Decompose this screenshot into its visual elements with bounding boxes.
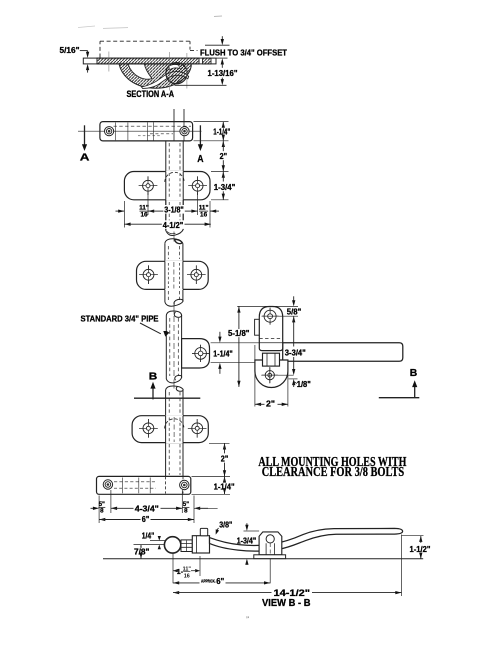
dimension 1/8 [289,379,311,389]
reference line ball center [134,544,165,546]
svg-text:1/4": 1/4" [142,532,155,541]
svg-text:16: 16 [140,212,148,219]
pipe segment 3 top cap [166,311,181,317]
latch finger fold (white band) [142,72,189,89]
dimension 3-1/8 [148,205,198,215]
svg-text:2": 2" [220,152,228,161]
extension lines 2 inch side [255,345,288,407]
label VIEW B - B [262,598,311,609]
clevis bolt head [200,528,207,535]
side plate hole [261,367,293,383]
dimension 5/8 side [287,296,302,322]
dimension 1-1/4 top [213,122,230,141]
dimension 2 right [220,141,228,172]
svg-text:3-1/8": 3-1/8" [164,206,184,215]
side pivot bracket [259,307,282,351]
svg-text:VIEW B - B: VIEW B - B [262,598,311,609]
section line B left [134,397,200,399]
pipe segment 4 [166,389,183,416]
pivot arm (front view) [182,339,210,368]
pipe segment 1 [166,141,183,231]
svg-text:4-1/2": 4-1/2" [163,221,184,230]
dimension 1-3/4 [214,172,236,200]
svg-text:1-1/4": 1-1/4" [213,349,233,358]
arm hole [192,345,209,362]
side bottom plate [255,360,288,387]
side nut [263,353,280,366]
svg-text:B: B [410,367,418,379]
pivot base flange [254,555,286,559]
svg-text:8: 8 [184,508,188,515]
section arrow B left [150,382,155,400]
top bracket bolt left [105,127,114,136]
center line gap 3 [173,380,175,389]
svg-text:5/16": 5/16" [60,46,80,55]
extension lines below bottom bracket [99,490,194,523]
dimension 5/16 leader and arrows [80,51,89,73]
svg-text:CLEARANCE FOR 3/8 BOLTS: CLEARANCE FOR 3/8 BOLTS [262,464,405,479]
plate 2 hole right [187,265,206,284]
side bracket hole [262,308,298,325]
plate 3 hole right [188,419,207,438]
svg-text:3-3/4": 3-3/4" [285,349,306,358]
section A-A dashed flush outline [100,41,230,57]
svg-text:”: ” [246,616,249,624]
top bracket bolt right [180,127,189,136]
reference line handle top left [150,540,170,542]
cam circle (section) [166,63,187,84]
center line gap 1 [173,232,175,242]
label FLUSH TO 3/4 OFFSET [200,47,288,57]
svg-text:11": 11" [139,205,149,212]
svg-text:8: 8 [100,508,104,515]
pipe segment 2 [165,243,183,302]
section line A-A through bolts [78,130,202,132]
svg-text:5/8": 5/8" [287,308,302,317]
mounting plate 3 [132,416,208,443]
pipe below plate 3 [166,443,183,477]
leader arrow to pipe [140,323,169,337]
pipe segment 4 top cap [166,386,184,391]
dimension 5/8 right [182,501,217,515]
extension line ball center down [172,554,174,584]
section arrow B right [412,380,417,397]
label STANDARD 3/4 PIPE [81,313,159,323]
handle (view B-B) [210,528,403,551]
section label B right [410,367,418,379]
section label B left [149,371,158,383]
dimension line 11/16 left [116,205,149,219]
pipe 2 lower part [165,291,183,306]
mounting plate 2 [137,261,209,289]
note CLEARANCE FOR 3/8 BOLTS [262,464,405,479]
extension lines right of top bracket [194,122,229,200]
svg-text:SECTION A-A: SECTION A-A [127,89,175,99]
dimension 2 side [255,400,288,409]
ball end [164,537,180,553]
svg-text:STANDARD 3/4" PIPE: STANDARD 3/4" PIPE [81,313,159,323]
svg-text:APPROX.: APPROX. [201,579,216,585]
pipe 1 lower part [166,200,183,236]
plate 1 hole right [188,176,207,195]
svg-text:4-3/4": 4-3/4" [135,504,159,513]
side view top extension line [237,305,298,307]
pivot bracket (view B-B) [259,532,282,557]
latch plate bar (section) [83,58,216,64]
flush offset arrow [221,36,224,45]
section arrow A left [80,125,90,163]
dimension 2 bottom [221,443,229,476]
dimension 3-3/4 [284,316,307,375]
plate 3 hole left [139,419,158,438]
pipe segment 2 top cap [165,239,183,244]
dimension 14-1/2 [173,588,402,599]
dimension 1-1/2 [410,536,431,559]
svg-text:11": 11" [199,205,209,212]
extension line clevis right [199,556,201,576]
extension line handle end down [401,535,403,597]
dimension 4-1/2 [124,220,210,230]
dimension 5/16 label [60,46,80,55]
pipe through plate 3 [165,415,184,443]
clevis block [192,536,209,553]
svg-text:B: B [149,371,158,383]
section arrow A right [197,125,204,165]
svg-text:1-3/4": 1-3/4" [237,537,257,546]
mounting surface baseline [103,558,423,560]
side bracket hidden line [259,338,282,340]
label SECTION A-A [127,89,175,99]
svg-text:16: 16 [200,212,208,219]
center line gap 2 [173,303,175,314]
dimension 1-1/4 arm [213,332,233,374]
svg-text:16: 16 [184,573,190,579]
faint mark top center [214,15,222,18]
dimension 1/4 [142,532,161,550]
pipe behind top bracket right [174,122,184,141]
plate 1 hole left [139,176,158,195]
bottom bracket bolt left [103,480,112,489]
pipe through plate 1 [165,171,184,201]
extension line pivot center down [269,559,271,583]
svg-text:5-1/8": 5-1/8" [228,329,250,338]
link block [181,540,203,552]
svg-text:1/8": 1/8" [297,380,311,389]
label 3/8 [214,521,232,536]
bottom bracket hidden lines [114,478,156,494]
dimension 5/8 left [91,501,106,515]
svg-text:6": 6" [142,515,150,524]
svg-text:3/8": 3/8" [219,521,232,530]
top mounting bracket [100,122,193,141]
note ALL MOUNTING HOLES WITH [258,454,407,469]
side handle bar [283,343,403,362]
bottom mounting bracket [97,476,191,494]
svg-text:1-13/16": 1-13/16" [208,69,238,78]
dimension 4-3/4 [111,504,182,513]
svg-text:FLUSH TO 3/4" OFFSET: FLUSH TO 3/4" OFFSET [200,47,288,57]
dimension 1-13/16 [175,58,238,85]
svg-text:6": 6" [216,577,224,586]
dimension approx 6 [173,577,270,586]
pipe segment 3 [166,315,181,383]
dimension 1-3/4 viewBB [237,523,259,565]
dimension line 11/16 right [199,205,219,219]
plate 2 hole left [139,265,158,284]
svg-text:1-3/4": 1-3/4" [214,183,236,192]
dimension 7/8 [133,545,150,559]
dimension 1-11/16 [173,566,200,579]
dimension 1-1/4 bottom [214,476,235,494]
extension lines below plate 1 [124,193,210,228]
faint smudge top left [78,26,128,29]
svg-text:A: A [197,153,204,165]
svg-text:2": 2" [266,400,275,409]
section line B right [379,397,420,399]
bottom bracket bolt right [180,480,189,489]
dimension 6 [99,515,194,524]
top bracket hidden lines [114,122,192,140]
mounting plate 1 [124,172,210,200]
pipe hidden in bottom bracket [166,476,183,493]
handle bar extension lines to side view [211,343,262,363]
dimension 5-1/8 [227,306,251,387]
hook strap (section) [119,64,191,88]
svg-text:2": 2" [221,455,229,464]
extension lines right bottom [192,443,231,494]
side bracket band line [259,342,282,344]
hook inner pocket (white) [128,64,152,79]
page mark [246,616,249,624]
pipe through plate 2 [165,261,183,290]
reference line 1-1/2 top [402,535,424,537]
side bracket tab [255,319,260,335]
svg-text:A: A [80,152,90,164]
section extension lines (faint) [109,52,187,91]
pipe stub above top bracket [174,109,184,122]
